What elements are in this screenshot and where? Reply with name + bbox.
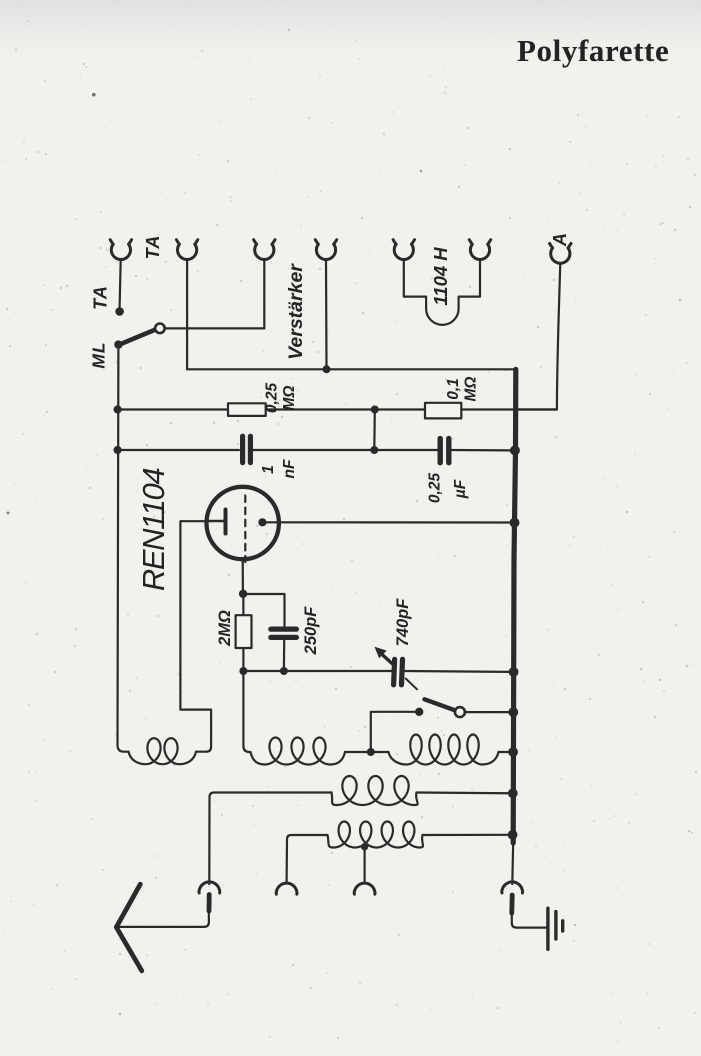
node switch S2 pivot dot xyxy=(415,708,423,716)
wire L4 to bus xyxy=(417,791,515,794)
wire anode to bus xyxy=(262,521,514,523)
wire terminal TA to junction xyxy=(120,260,121,308)
wire TA2 down and right to bus top xyxy=(187,260,516,370)
tube REN1104 envelope U1 xyxy=(207,487,279,559)
svg-text:1104 H: 1104 H xyxy=(430,247,451,306)
inductor L1 grid coil xyxy=(129,738,197,764)
tube cathode lead and bar xyxy=(208,520,227,523)
node tap dot on coil line xyxy=(367,748,375,756)
svg-text:A: A xyxy=(550,233,570,247)
wire coupling cap line xyxy=(118,449,516,452)
antenna plug pin xyxy=(207,895,212,912)
node tube anode dot xyxy=(258,518,266,526)
svg-text:REN1104: REN1104 xyxy=(136,468,171,591)
capacitor C4 arrowhead xyxy=(374,647,386,659)
terminal TA upper (phono) xyxy=(110,240,131,260)
wire L3 to bus xyxy=(499,751,515,753)
wire cathode to C3 branch xyxy=(243,594,284,627)
wire C3 bottom to line xyxy=(283,640,286,671)
svg-text:1: 1 xyxy=(260,465,277,474)
terminal Verstaerker xyxy=(315,240,336,260)
wire R3 bottom down to L2 xyxy=(243,671,249,752)
resistor R3 2 MOhm body xyxy=(236,615,252,648)
wire cathode down xyxy=(242,559,244,590)
terminal 1104H right xyxy=(469,240,490,260)
wire Verstaerker down xyxy=(325,260,328,370)
node TA junction dot xyxy=(115,307,124,316)
terminal antenna socket (bottom left) xyxy=(199,882,220,893)
node switch S1 pivot dot xyxy=(114,340,122,348)
svg-text:TA: TA xyxy=(91,285,111,310)
capacitor C2 0,25uF plates xyxy=(440,438,449,462)
terminal 1104H left xyxy=(393,240,414,260)
wire terminal3 down xyxy=(263,260,265,329)
tube grid dashed line xyxy=(244,496,246,563)
terminal socket spare 1 xyxy=(276,883,297,894)
svg-text:2MΩ: 2MΩ xyxy=(216,610,234,647)
svg-text:740pF: 740pF xyxy=(394,598,412,647)
terminal socket spare 2 xyxy=(354,883,375,894)
wire bus to ground terminal xyxy=(511,841,514,884)
terminal TA second xyxy=(176,240,197,260)
svg-text:Verstärker: Verstärker xyxy=(285,263,307,360)
wire grid lead left and down xyxy=(180,521,211,752)
wire L5 tap down to terminal xyxy=(364,847,366,882)
capacitor C4 arrow shaft xyxy=(381,654,392,664)
node bus junction dot y=671.9 xyxy=(509,667,519,677)
node bus junction dot y=450.4 xyxy=(510,445,520,455)
svg-text:nF: nF xyxy=(281,459,298,478)
node bus junction dot y=793.3 xyxy=(508,788,518,798)
node bus junction dot y=712.1 xyxy=(508,707,518,717)
node Verstaerker junction dot xyxy=(323,365,331,373)
svg-text:250pF: 250pF xyxy=(302,606,320,656)
capacitor C1 1nF plates xyxy=(243,436,251,462)
wire main bus (thick vertical) xyxy=(513,369,516,843)
wire L2 to tap xyxy=(345,751,389,753)
svg-text:µF: µF xyxy=(452,479,469,499)
wire tuning line to bus xyxy=(243,670,514,673)
svg-text:MΩ: MΩ xyxy=(281,385,298,410)
terminal ground socket xyxy=(502,882,523,893)
ground plug pin xyxy=(509,895,514,913)
inductor L3 xyxy=(389,735,499,765)
node bus junction dot y=752 xyxy=(508,747,518,757)
inductor L5 antenna series coil xyxy=(328,822,424,848)
wire link between lines xyxy=(373,410,376,451)
wire L1 to riser xyxy=(196,751,206,753)
wire L5 left to terminal xyxy=(287,835,328,882)
node R3 bottom dot xyxy=(239,667,247,675)
capacitor C3 250pF plates xyxy=(271,629,297,637)
capacitor C4 arrow tail xyxy=(406,679,417,690)
svg-text:Polyfarette: Polyfarette xyxy=(517,33,669,68)
node left rail dot at coupling-cap line xyxy=(114,446,122,454)
resistor R2 0,1 MOhm body xyxy=(425,403,461,419)
svg-text:TA: TA xyxy=(143,235,163,260)
svg-text:ML: ML xyxy=(89,341,109,368)
node L5 center tap dot xyxy=(361,843,368,850)
svg-text:0,1: 0,1 xyxy=(445,378,462,400)
node cathode junction dot xyxy=(239,590,247,598)
terminal third (switch feed) xyxy=(254,240,275,260)
svg-text:0,25: 0,25 xyxy=(264,383,281,414)
svg-text:MΩ: MΩ xyxy=(463,376,480,401)
wire ground pin to ground symbol xyxy=(512,913,546,927)
svg-text:0,25: 0,25 xyxy=(427,473,444,504)
node C3 bottom dot xyxy=(280,667,288,675)
wire L5 to bus xyxy=(423,834,515,836)
wire cathode to R3 xyxy=(242,594,244,671)
wire L4 left to antenna terminal xyxy=(209,793,331,885)
wire switch contact to terminal3 xyxy=(165,327,264,329)
switch S2 open contact circle xyxy=(455,707,465,717)
node bus junction dot y=834.8 xyxy=(508,830,518,840)
ground symbol bars xyxy=(548,908,563,949)
terminal A (antenna out) xyxy=(550,243,571,263)
switch S1 open contact circle xyxy=(155,324,165,334)
node left rail dot at grid-leak line xyxy=(114,405,122,413)
antenna symbol chevron xyxy=(116,884,142,971)
heater bracket 1104 H xyxy=(404,260,480,325)
inductor L4 antenna coupling coil xyxy=(332,776,418,805)
wire left rail down to coil L1 xyxy=(118,346,129,752)
wire grid resistor line xyxy=(118,408,557,410)
resistor R1 0,25 MOhm body xyxy=(228,403,266,416)
node dot R-line to C-line link top xyxy=(371,406,379,414)
wire S2 pivot to tap xyxy=(371,712,419,752)
switch S1 lever (ML) xyxy=(118,330,155,345)
wire antenna pin to antenna symbol xyxy=(118,910,209,927)
switch S2 lever xyxy=(425,699,456,710)
wire A terminal down to bus xyxy=(518,263,560,409)
node bus junction dot y=522.6 xyxy=(510,518,520,528)
wire S2 contact to bus xyxy=(465,711,514,713)
inductor L2 tuning coil xyxy=(251,738,346,765)
capacitor C4 740pF variable plates xyxy=(394,659,403,685)
node dot link bottom xyxy=(370,446,378,454)
